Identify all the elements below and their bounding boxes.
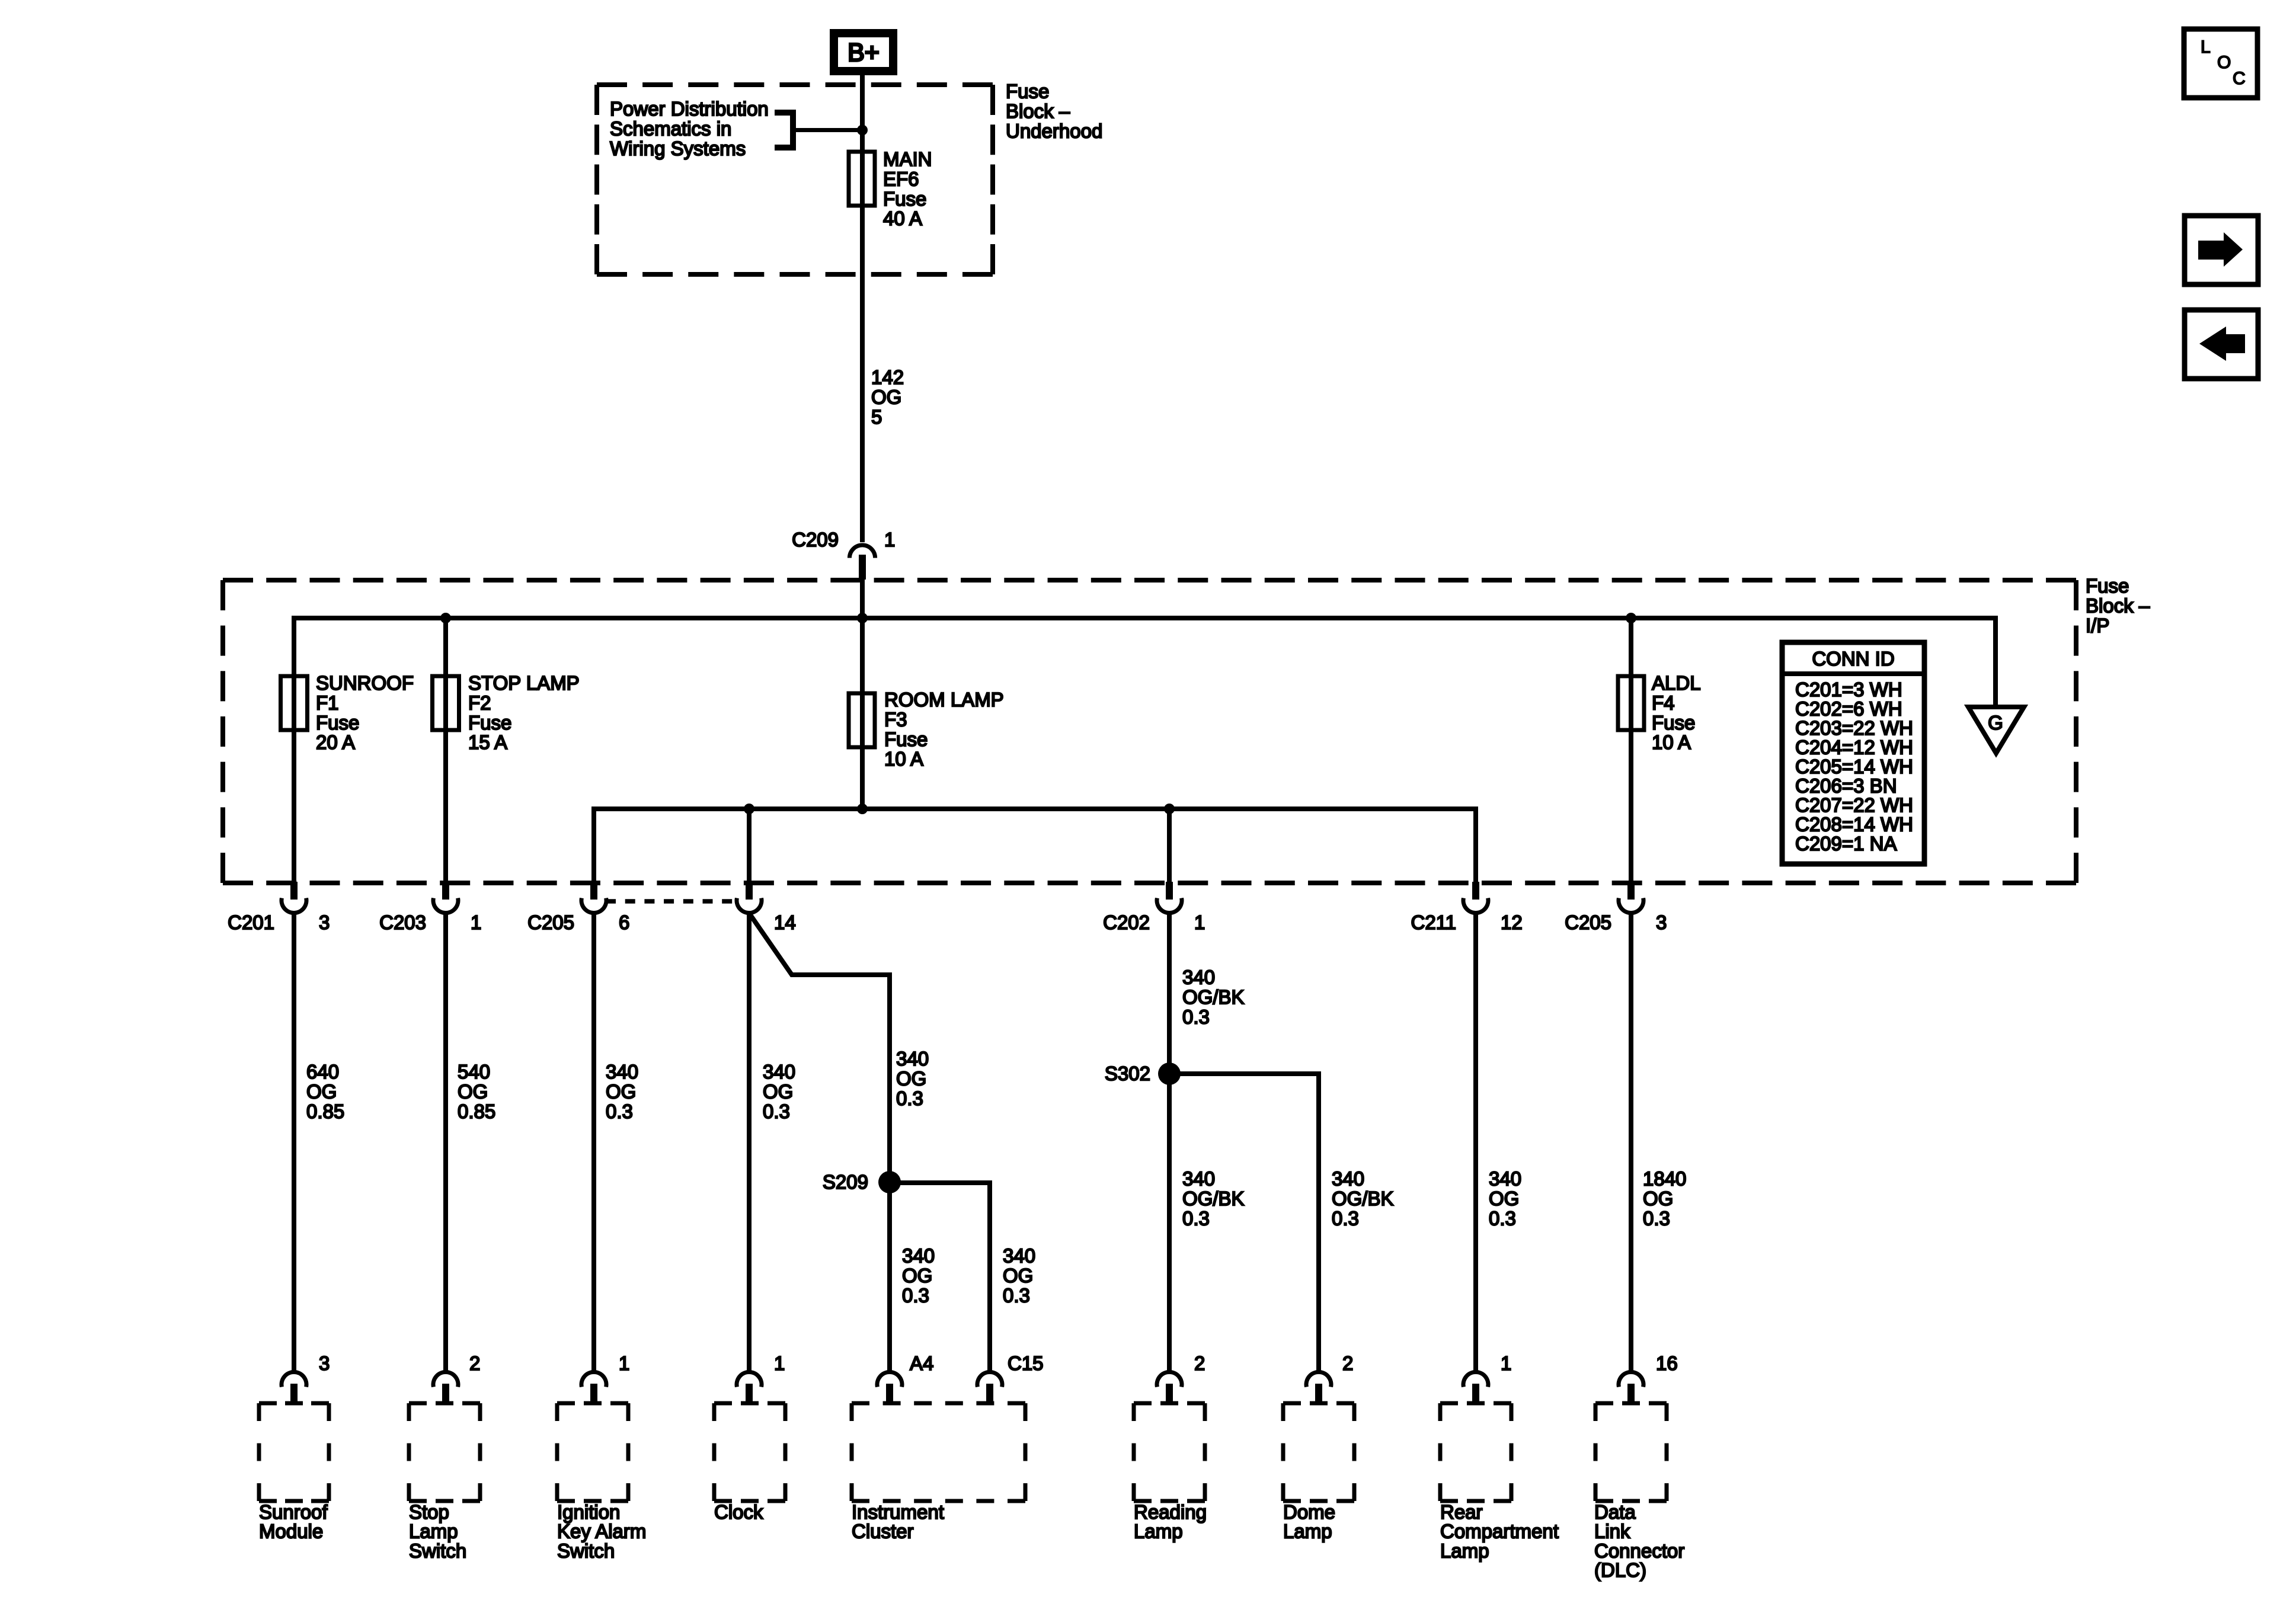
svg-text:1: 1 xyxy=(619,1352,629,1374)
svg-text:5: 5 xyxy=(871,406,882,428)
svg-text:EF6: EF6 xyxy=(883,168,919,190)
svg-text:Lamp: Lamp xyxy=(1283,1521,1332,1542)
svg-text:10 A: 10 A xyxy=(1652,731,1691,753)
svg-text:S302: S302 xyxy=(1105,1062,1150,1084)
room lamp distribution bus xyxy=(594,806,1476,811)
svg-text:C209=1 NA: C209=1 NA xyxy=(1795,833,1897,854)
svg-text:340: 340 xyxy=(1489,1168,1521,1190)
label Clock xyxy=(714,1501,763,1523)
svg-text:0.3: 0.3 xyxy=(1489,1207,1516,1229)
connector pin 1 at component xyxy=(1463,1352,1511,1403)
svg-text:C202: C202 xyxy=(1103,911,1150,933)
svg-text:Fuse: Fuse xyxy=(884,728,928,750)
svg-text:3: 3 xyxy=(319,1352,330,1374)
wire branch C205-14 xyxy=(747,809,752,883)
svg-text:C15: C15 xyxy=(1008,1352,1044,1374)
connector C205 pin 3 at fuse block I/P xyxy=(1565,882,1667,933)
svg-text:Clock: Clock xyxy=(714,1501,763,1523)
label Rear Compartment Lamp xyxy=(1440,1501,1559,1561)
svg-text:0.3: 0.3 xyxy=(902,1284,929,1306)
label STOP LAMP F2 Fuse 15 A xyxy=(468,672,580,753)
wire label 340 OG/BK 0.3 xyxy=(1332,1168,1394,1230)
svg-text:1: 1 xyxy=(471,911,481,933)
wire C209 into fuse block to bus xyxy=(860,580,865,811)
svg-text:340: 340 xyxy=(1182,966,1215,988)
fuse block underhood box xyxy=(597,85,993,274)
svg-text:0.85: 0.85 xyxy=(306,1100,344,1122)
svg-text:S209: S209 xyxy=(823,1171,868,1193)
connector C211 pin 12 at fuse block I/P xyxy=(1411,882,1523,933)
junction room lamp feed xyxy=(857,804,868,814)
wire C201-3 to sunroof module xyxy=(292,913,296,1372)
svg-text:340: 340 xyxy=(606,1061,638,1083)
svg-text:10 A: 10 A xyxy=(884,748,923,770)
connector C201 pin 3 at fuse block I/P xyxy=(228,882,330,933)
label Reading Lamp xyxy=(1134,1501,1207,1542)
svg-text:Rear: Rear xyxy=(1440,1501,1483,1523)
svg-text:Fuse: Fuse xyxy=(316,712,359,734)
wire branch C202-1 xyxy=(1167,809,1172,883)
svg-text:Data: Data xyxy=(1594,1501,1636,1523)
svg-text:ROOM LAMP: ROOM LAMP xyxy=(884,689,1004,711)
svg-text:Cluster: Cluster xyxy=(852,1521,914,1542)
svg-text:Schematics in: Schematics in xyxy=(610,117,731,139)
junction C202-1 xyxy=(1164,804,1175,814)
svg-text:A4: A4 xyxy=(910,1352,933,1374)
svg-text:C205=14 WH: C205=14 WH xyxy=(1795,756,1913,777)
svg-text:Compartment: Compartment xyxy=(1440,1521,1559,1542)
component box Instrument Cluster xyxy=(852,1403,1025,1501)
svg-text:OG: OG xyxy=(606,1080,636,1102)
note Power Distribution Schematics in Wiring Systems xyxy=(610,98,769,159)
label MAIN EF6 Fuse 40 A xyxy=(883,148,932,229)
wire label 340 OG 0.3 xyxy=(902,1245,935,1307)
svg-text:Switch: Switch xyxy=(409,1540,466,1561)
svg-text:3: 3 xyxy=(319,911,330,933)
svg-text:540: 540 xyxy=(458,1061,490,1083)
svg-text:20 A: 20 A xyxy=(316,731,355,753)
connector pin C15 at component xyxy=(977,1352,1044,1403)
svg-text:40 A: 40 A xyxy=(883,207,922,229)
connector pin 2 at component xyxy=(1306,1352,1353,1403)
svg-text:0.3: 0.3 xyxy=(1182,1207,1210,1229)
svg-text:Fuse: Fuse xyxy=(883,188,926,210)
svg-text:340: 340 xyxy=(902,1245,935,1267)
junction F3 feed xyxy=(857,613,868,623)
connector pin 1 at component xyxy=(581,1352,629,1403)
dashed tie between C205 pins 6 and 14 xyxy=(606,899,737,904)
svg-text:C201: C201 xyxy=(228,911,274,933)
wire label 340 OG 0.3 xyxy=(763,1061,795,1122)
label Instrument Cluster xyxy=(852,1501,944,1542)
fuse MAIN EF6 40 A xyxy=(849,152,875,206)
svg-text:2: 2 xyxy=(1194,1352,1205,1374)
fuse block I/P box xyxy=(223,580,2076,883)
svg-text:Fuse: Fuse xyxy=(1652,712,1695,734)
svg-text:C202=6 WH: C202=6 WH xyxy=(1795,698,1902,720)
wire C203-1 to stop lamp switch xyxy=(443,913,448,1372)
junction F2 xyxy=(440,613,451,623)
connector C202 pin 1 at fuse block I/P xyxy=(1103,882,1205,933)
connector pin 1 at component xyxy=(737,1352,785,1403)
svg-text:12: 12 xyxy=(1501,911,1523,933)
label Stop Lamp Switch xyxy=(409,1501,466,1561)
svg-text:0.85: 0.85 xyxy=(458,1100,495,1122)
svg-text:142: 142 xyxy=(871,366,904,388)
wire C205-6 to ignition key alarm switch xyxy=(591,913,596,1372)
svg-text:ALDL: ALDL xyxy=(1652,672,1701,694)
CONN ID table xyxy=(1782,642,1924,864)
wire ALDL F4 branch xyxy=(1629,618,1633,883)
svg-text:C206=3 BN: C206=3 BN xyxy=(1795,775,1897,797)
svg-text:OG: OG xyxy=(871,386,901,408)
bus wire inside I/P fuse block xyxy=(294,616,1996,620)
component box Stop Lamp Switch xyxy=(409,1403,480,1501)
svg-text:1: 1 xyxy=(1501,1352,1511,1374)
wire label 340 OG 0.3 xyxy=(1489,1168,1521,1230)
svg-text:O: O xyxy=(2217,53,2231,72)
svg-text:Block –: Block – xyxy=(2086,594,2150,616)
svg-text:F3: F3 xyxy=(884,708,907,730)
svg-text:OG: OG xyxy=(1489,1188,1519,1209)
svg-text:Fuse: Fuse xyxy=(468,712,511,734)
svg-text:F4: F4 xyxy=(1652,692,1675,713)
splice S302 xyxy=(1158,1062,1181,1085)
wire label 142 OG 5 xyxy=(871,366,904,428)
svg-text:OG: OG xyxy=(896,1067,926,1089)
component box Dome Lamp xyxy=(1283,1403,1354,1501)
svg-text:F1: F1 xyxy=(316,692,339,713)
svg-text:15 A: 15 A xyxy=(468,731,507,753)
component box Ignition Key Alarm Switch xyxy=(557,1403,628,1501)
wire stop lamp F2 branch xyxy=(443,618,448,883)
wire label 640 OG 0.85 xyxy=(306,1061,344,1122)
svg-text:SUNROOF: SUNROOF xyxy=(316,672,414,694)
label Fuse Block - Underhood xyxy=(1006,81,1102,142)
svg-text:0.3: 0.3 xyxy=(606,1100,633,1122)
svg-text:340: 340 xyxy=(763,1061,795,1083)
svg-text:F2: F2 xyxy=(468,692,491,713)
svg-text:0.3: 0.3 xyxy=(896,1087,923,1109)
svg-text:Dome: Dome xyxy=(1283,1501,1335,1523)
svg-text:14: 14 xyxy=(774,911,796,933)
wire S209 to instrument cluster A4 xyxy=(887,1182,892,1372)
component box Reading Lamp xyxy=(1134,1403,1205,1501)
svg-text:0.3: 0.3 xyxy=(1332,1207,1359,1229)
bracket from note to wire xyxy=(775,113,862,148)
svg-text:C203=22 WH: C203=22 WH xyxy=(1795,717,1913,739)
svg-text:OG: OG xyxy=(306,1080,337,1102)
svg-text:340: 340 xyxy=(896,1048,929,1070)
svg-text:340: 340 xyxy=(1003,1245,1035,1267)
fuse ALDL F4 10 A xyxy=(1618,676,1644,730)
wire label 340 OG/BK 0.3 xyxy=(1182,1168,1245,1230)
junction C205-14 xyxy=(744,804,754,814)
svg-text:STOP LAMP: STOP LAMP xyxy=(468,672,580,694)
label Ignition Key Alarm Switch xyxy=(557,1501,646,1561)
svg-text:OG/BK: OG/BK xyxy=(1332,1188,1394,1209)
fuse ROOM LAMP F3 10 A xyxy=(849,693,875,747)
wire label 1840 OG 0.3 xyxy=(1643,1168,1686,1230)
connector C209 pin 1 xyxy=(792,529,895,580)
wire S302 branch to dome lamp xyxy=(1169,1071,1319,1076)
label Data Link Connector (DLC) xyxy=(1594,1501,1684,1581)
svg-text:1: 1 xyxy=(884,529,895,551)
svg-text:(DLC): (DLC) xyxy=(1594,1559,1646,1581)
svg-text:0.3: 0.3 xyxy=(1643,1207,1670,1229)
wire C205-14 branch to instrument cluster xyxy=(749,913,890,1182)
svg-text:340: 340 xyxy=(1332,1168,1364,1190)
wire label 540 OG 0.85 xyxy=(458,1061,495,1122)
svg-text:2: 2 xyxy=(1342,1352,1353,1374)
connector pin 3 at component xyxy=(282,1352,330,1403)
svg-text:MAIN: MAIN xyxy=(883,148,932,170)
wire label 340 OG 0.3 xyxy=(1003,1245,1035,1307)
svg-text:Instrument: Instrument xyxy=(852,1501,944,1523)
svg-text:1: 1 xyxy=(1194,911,1205,933)
svg-text:340: 340 xyxy=(1182,1168,1215,1190)
svg-text:Underhood: Underhood xyxy=(1006,120,1102,142)
svg-text:Fuse: Fuse xyxy=(1006,81,1049,103)
svg-text:CONN ID: CONN ID xyxy=(1812,648,1894,670)
svg-text:Switch: Switch xyxy=(557,1540,615,1561)
svg-text:Lamp: Lamp xyxy=(409,1521,458,1542)
svg-text:Link: Link xyxy=(1594,1521,1630,1542)
wire C211-12 to rear compartment lamp xyxy=(1473,913,1478,1372)
wire label 340 OG/BK 0.3 xyxy=(1182,966,1245,1028)
svg-text:G: G xyxy=(1988,712,2003,734)
svg-text:I/P: I/P xyxy=(2086,615,2109,636)
svg-text:OG: OG xyxy=(458,1080,488,1102)
svg-text:Lamp: Lamp xyxy=(1134,1521,1183,1542)
wire sunroof F1 branch xyxy=(292,616,296,883)
label ALDL F4 Fuse 10 A xyxy=(1652,672,1701,753)
svg-text:C211: C211 xyxy=(1411,911,1456,933)
svg-text:Sunroof: Sunroof xyxy=(259,1501,328,1523)
legend arrow left box xyxy=(2185,310,2258,379)
svg-text:Fuse: Fuse xyxy=(2086,575,2129,597)
junction F4 xyxy=(1626,613,1636,623)
svg-text:OG: OG xyxy=(763,1080,793,1102)
wire C205-3 to DLC xyxy=(1629,913,1633,1372)
fuse SUNROOF F1 20 A xyxy=(281,676,308,730)
svg-text:Reading: Reading xyxy=(1134,1501,1207,1523)
wire branch C211-12 xyxy=(1473,806,1478,883)
svg-text:OG/BK: OG/BK xyxy=(1182,1188,1245,1209)
junction node on B+ wire xyxy=(857,125,868,136)
svg-text:Power Distribution: Power Distribution xyxy=(610,98,769,120)
wire label 340 OG 0.3 xyxy=(606,1061,638,1122)
svg-text:C203: C203 xyxy=(379,911,426,933)
wire C205-14 to clock xyxy=(747,913,752,1372)
battery feed terminal B+ xyxy=(834,33,893,71)
svg-text:C205: C205 xyxy=(527,911,574,933)
svg-text:Key Alarm: Key Alarm xyxy=(557,1521,646,1542)
component box Sunroof Module xyxy=(259,1403,329,1501)
svg-text:OG: OG xyxy=(1003,1265,1033,1286)
wire C202-1 to splice S302 xyxy=(1167,913,1172,1372)
svg-text:B+: B+ xyxy=(848,39,880,67)
svg-text:2: 2 xyxy=(469,1352,480,1374)
splice S209 xyxy=(878,1171,901,1193)
wire B+ down to connector C209 xyxy=(860,71,865,542)
label ROOM LAMP F3 Fuse 10 A xyxy=(884,689,1004,770)
svg-text:C209: C209 xyxy=(792,529,839,551)
wire to ground G xyxy=(1993,616,1998,709)
svg-text:Connector: Connector xyxy=(1594,1540,1684,1561)
connector C203 pin 1 at fuse block I/P xyxy=(379,882,481,933)
label SUNROOF F1 Fuse 20 A xyxy=(316,672,414,753)
svg-text:Block –: Block – xyxy=(1006,100,1070,122)
svg-text:16: 16 xyxy=(1656,1352,1678,1374)
connector C205 pin 14 at fuse block I/P xyxy=(737,882,796,933)
connector pin 16 at component xyxy=(1619,1352,1678,1403)
svg-text:Ignition: Ignition xyxy=(557,1501,620,1523)
svg-text:0.3: 0.3 xyxy=(1003,1284,1030,1306)
svg-text:6: 6 xyxy=(619,911,629,933)
connector pin A4 at component xyxy=(877,1352,933,1403)
label Fuse Block - I/P xyxy=(2086,575,2150,636)
svg-text:3: 3 xyxy=(1656,911,1667,933)
svg-text:L: L xyxy=(2201,37,2211,57)
svg-text:Stop: Stop xyxy=(409,1501,449,1523)
component box Data Link Connector (DLC) xyxy=(1595,1403,1667,1501)
svg-text:Module: Module xyxy=(259,1521,323,1542)
svg-text:OG: OG xyxy=(902,1265,932,1286)
wire S209 branch to C15 xyxy=(890,1180,990,1185)
svg-text:OG: OG xyxy=(1643,1188,1673,1209)
svg-text:C207=22 WH: C207=22 WH xyxy=(1795,794,1913,816)
svg-text:C204=12 WH: C204=12 WH xyxy=(1795,737,1913,759)
svg-text:1: 1 xyxy=(774,1352,785,1374)
wire label 340 OG 0.3 xyxy=(896,1048,929,1109)
svg-text:C201=3 WH: C201=3 WH xyxy=(1795,679,1902,700)
svg-text:C208=14 WH: C208=14 WH xyxy=(1795,814,1913,836)
component box Rear Compartment Lamp xyxy=(1440,1403,1511,1501)
svg-text:C: C xyxy=(2233,69,2246,88)
legend LOC box xyxy=(2184,29,2257,98)
component box Clock xyxy=(714,1403,785,1501)
svg-text:1840: 1840 xyxy=(1643,1168,1686,1190)
wire branch C205-6 xyxy=(591,806,596,883)
svg-text:OG/BK: OG/BK xyxy=(1182,986,1245,1008)
svg-text:0.3: 0.3 xyxy=(763,1100,790,1122)
svg-text:Wiring Systems: Wiring Systems xyxy=(610,137,746,159)
legend arrow right box xyxy=(2185,216,2258,284)
label Dome Lamp xyxy=(1283,1501,1335,1542)
svg-text:0.3: 0.3 xyxy=(1182,1006,1210,1028)
fuse STOP LAMP F2 15 A xyxy=(433,676,459,730)
connector C205 pin 6 at fuse block I/P xyxy=(527,882,629,933)
svg-text:Lamp: Lamp xyxy=(1440,1540,1489,1561)
ground symbol G xyxy=(1968,707,2024,753)
svg-text:640: 640 xyxy=(306,1061,339,1083)
connector pin 2 at component xyxy=(433,1352,480,1403)
label Sunroof Module xyxy=(259,1501,328,1542)
connector pin 2 at component xyxy=(1157,1352,1205,1403)
svg-text:C205: C205 xyxy=(1565,911,1611,933)
